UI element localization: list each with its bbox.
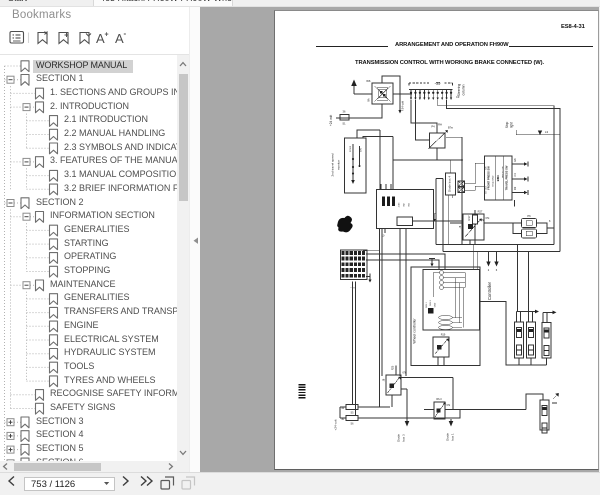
svg-text:C4: C4 xyxy=(513,173,517,177)
svg-text:R27: R27 xyxy=(478,210,483,214)
svg-text:R25: R25 xyxy=(392,365,395,370)
svg-text:Stop: Stop xyxy=(505,121,509,128)
svg-text:+24 volt: +24 volt xyxy=(401,101,405,111)
svg-text:L3: L3 xyxy=(545,130,549,134)
svg-text:RH: RH xyxy=(438,123,442,127)
svg-text:B7w: B7w xyxy=(448,127,453,130)
svg-text:light: light xyxy=(510,122,514,128)
svg-text:C3: C3 xyxy=(456,95,460,99)
svg-text:box 3: box 3 xyxy=(402,434,406,442)
svg-text:+24 volt: +24 volt xyxy=(334,419,338,430)
svg-text:E6: E6 xyxy=(513,158,517,162)
svg-text:R6-3: R6-3 xyxy=(436,398,442,401)
svg-text:67k: 67k xyxy=(486,217,491,220)
svg-text:R19: R19 xyxy=(441,334,446,337)
svg-text:Diode: Diode xyxy=(446,433,450,441)
svg-text:column: column xyxy=(462,84,466,95)
svg-text:4J03: 4J03 xyxy=(399,202,401,207)
svg-text:34: 34 xyxy=(341,407,344,410)
svg-text:GND: GND xyxy=(435,302,437,307)
svg-text:8: 8 xyxy=(549,220,551,223)
svg-text:SOL 1: SOL 1 xyxy=(426,301,428,307)
svg-text:10: 10 xyxy=(382,235,385,238)
svg-text:Diode box 4: Diode box 4 xyxy=(448,176,452,192)
svg-text:D7 J34: D7 J34 xyxy=(486,186,488,194)
svg-text:+24 volt: +24 volt xyxy=(329,115,333,126)
svg-text:30: 30 xyxy=(341,418,344,421)
svg-text:Steering: Steering xyxy=(457,84,461,97)
svg-text:S1: S1 xyxy=(342,122,346,126)
svg-text:J8: J8 xyxy=(383,378,386,381)
svg-text:30V: 30V xyxy=(361,148,363,152)
svg-text:Diode: Diode xyxy=(397,434,401,442)
svg-text:PRESS SW: PRESS SW xyxy=(503,165,505,177)
svg-text:2: 2 xyxy=(488,268,490,272)
svg-text:monitor: monitor xyxy=(337,160,341,170)
svg-text:TRAVEL PRESS SW: TRAVEL PRESS SW xyxy=(505,165,509,190)
svg-text:W6: W6 xyxy=(366,79,371,83)
svg-text:SOL 2: SOL 2 xyxy=(430,299,432,305)
svg-text:Controller: Controller xyxy=(487,281,492,300)
svg-text:S5: S5 xyxy=(351,412,355,415)
svg-text:P6: P6 xyxy=(527,214,531,218)
svg-text:57003: 57003 xyxy=(350,145,352,152)
svg-text:-55: -55 xyxy=(435,81,442,86)
svg-text:67k: 67k xyxy=(447,405,452,407)
svg-text:S6: S6 xyxy=(351,423,355,426)
svg-text:IN1: IN1 xyxy=(409,203,411,207)
svg-text:NC(n-GND: NC(n-GND xyxy=(493,175,495,186)
svg-text:D9: D9 xyxy=(513,186,517,190)
svg-text:6: 6 xyxy=(496,268,498,272)
svg-text:IN2: IN2 xyxy=(404,203,406,207)
svg-text:R17: R17 xyxy=(467,215,471,220)
svg-text:P4: P4 xyxy=(431,125,435,129)
svg-text:box 1: box 1 xyxy=(451,433,455,441)
svg-text:J6: J6 xyxy=(459,225,462,228)
svg-text:Wheel controller: Wheel controller xyxy=(413,318,417,344)
svg-text:2nd travel speed: 2nd travel speed xyxy=(331,153,335,176)
svg-text:36: 36 xyxy=(343,110,346,114)
svg-text:BMC: BMC xyxy=(496,175,500,181)
svg-text:9A: 9A xyxy=(367,98,371,101)
